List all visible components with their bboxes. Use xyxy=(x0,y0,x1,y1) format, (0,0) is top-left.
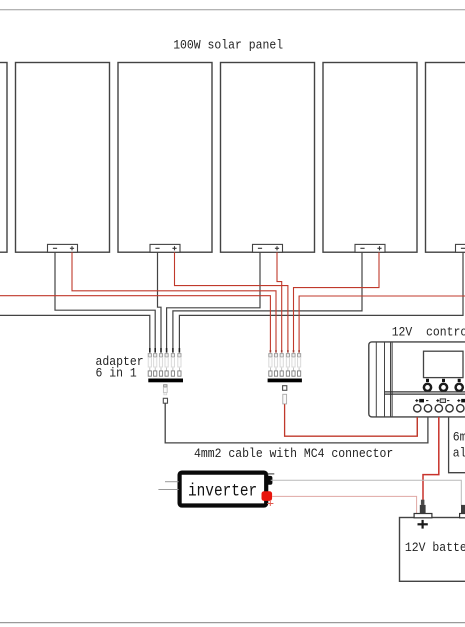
svg-text:alligator clip: alligator clip xyxy=(453,446,465,461)
svg-text:12V battery: 12V battery xyxy=(405,540,465,555)
svg-text:inverter: inverter xyxy=(188,483,257,502)
svg-text:12V controller: 12V controller xyxy=(392,325,465,340)
svg-text:6mm2 cable: 6mm2 cable xyxy=(453,430,465,445)
svg-text:4mm2 cable with MC4 connector: 4mm2 cable with MC4 connector xyxy=(194,446,393,461)
svg-text:6 in 1: 6 in 1 xyxy=(96,366,137,381)
svg-text:100W solar panel: 100W solar panel xyxy=(173,38,283,53)
